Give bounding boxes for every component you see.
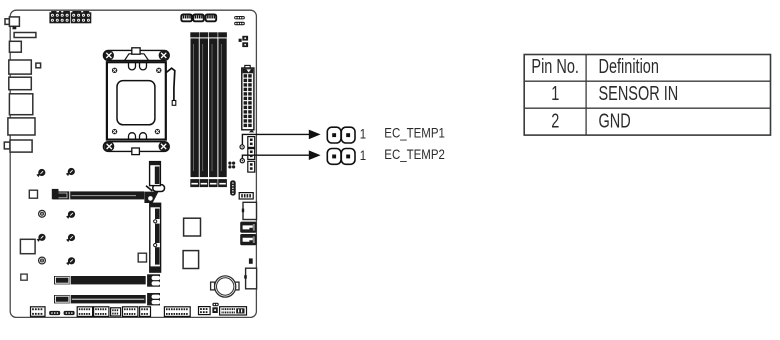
dark part left <box>52 189 59 199</box>
USB 2 header 2 <box>140 307 151 317</box>
svg-text:EC_TEMP1: EC_TEMP1 <box>384 124 445 140</box>
SATA connector 1 <box>240 222 256 233</box>
M.2 slot latch <box>144 185 164 203</box>
USB 2 header 1 <box>123 307 138 317</box>
sensor mounting hole 2 <box>240 159 244 163</box>
motherboard outline <box>10 10 256 317</box>
table header Definition <box>599 55 659 78</box>
SPI TPM header <box>77 307 92 317</box>
front audio header <box>31 307 46 317</box>
table cell GND <box>599 109 631 132</box>
mounting square small lower <box>21 274 27 280</box>
COM header <box>94 307 109 317</box>
svg-text:1: 1 <box>551 82 559 105</box>
CMOS battery <box>211 276 239 297</box>
fan/pump headers top right <box>234 16 245 25</box>
ATX 12V power connectors ATX_12V <box>49 11 91 23</box>
SATA connector 2 <box>240 234 256 245</box>
small header <box>111 308 121 316</box>
capacitor dots <box>228 162 235 169</box>
mounting square small upper <box>29 190 37 198</box>
svg-text:SENSOR IN: SENSOR IN <box>599 82 679 105</box>
svg-text:1: 1 <box>360 125 366 141</box>
svg-text:EC_TEMP2: EC_TEMP2 <box>384 146 445 162</box>
table cell 1 <box>551 82 559 105</box>
Thunderbolt add-in connector <box>244 268 256 289</box>
M.2 connector vertical lower <box>150 203 161 272</box>
small dark part right <box>249 258 253 263</box>
fan header bottom <box>199 307 211 315</box>
vertical pin header right <box>230 180 236 195</box>
USB 3 bottom header <box>220 307 247 315</box>
svg-text:1: 1 <box>360 147 366 163</box>
EC_TEMP2 label <box>384 146 445 162</box>
24-pin ATX main power connector <box>242 65 255 132</box>
M.2 slot horizontal <box>53 191 145 199</box>
pin 1 label for EC_TEMP1 <box>360 125 366 141</box>
sensor mounting hole 1 <box>240 145 244 149</box>
third header below EC_TEMP2 <box>248 161 255 172</box>
system fan headers <box>181 14 216 21</box>
I/O port small dark block <box>13 26 17 29</box>
EC_TEMP2 header on board <box>248 149 255 160</box>
EC_TEMP2 pin diagram <box>327 149 355 165</box>
M.2 connector vertical upper <box>150 162 161 186</box>
standoff screws column B <box>66 168 75 266</box>
PCIe x16 slot 2 <box>54 293 160 305</box>
USB header right <box>239 193 253 199</box>
table cell SENSOR IN <box>599 82 679 105</box>
pin 1 label for EC_TEMP2 <box>360 147 366 163</box>
standoff screws column A <box>36 169 45 264</box>
EC_TEMP1 pin diagram <box>327 127 355 143</box>
PCIe x16 slot 1 <box>54 274 160 286</box>
svg-text:Definition: Definition <box>599 55 659 78</box>
front panel header <box>164 307 190 317</box>
svg-text:Pin No.: Pin No. <box>531 55 579 78</box>
EC_TEMP1 header on board <box>248 137 255 148</box>
arrow to EC_TEMP1 pin diagram <box>309 130 321 140</box>
EC_TEMP1 label <box>384 124 445 140</box>
mounting square mid-board <box>138 253 146 262</box>
leader line to EC_TEMP1 <box>242 134 309 145</box>
clear CMOS jumper <box>212 303 218 313</box>
jumper header 1 <box>49 311 60 315</box>
USB 3 header box <box>242 202 257 219</box>
mounting square large <box>20 239 35 253</box>
pin definition table <box>524 55 770 136</box>
DDR5 memory slots <box>190 32 227 187</box>
rear panel I/O ports <box>4 17 40 152</box>
CPU socket <box>103 48 175 155</box>
audio codec chip <box>183 251 199 269</box>
svg-text:2: 2 <box>551 109 559 132</box>
jumper header 2 <box>64 311 75 315</box>
arrow to EC_TEMP2 pin diagram <box>309 150 321 160</box>
table cell 2 <box>551 109 559 132</box>
small onboard parts near power connector <box>239 36 249 47</box>
chipset <box>184 218 201 236</box>
leader line to EC_TEMP2 <box>242 155 309 159</box>
svg-text:GND: GND <box>599 109 631 132</box>
table header Pin No. <box>531 55 579 78</box>
